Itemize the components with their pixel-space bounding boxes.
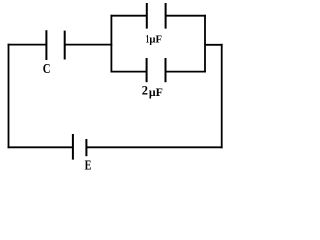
wire box bottom branch left	[111, 71, 147, 73]
wire box right side	[204, 15, 206, 73]
capacitor C1 1uF	[147, 3, 166, 29]
wire bottom left	[8, 146, 73, 148]
wire box top branch right	[166, 15, 206, 17]
svg-text:2: 2	[142, 83, 148, 97]
wire C to parallel box	[65, 44, 113, 46]
wire left vertical	[8, 44, 10, 149]
svg-text:E: E	[85, 159, 92, 174]
wire box bottom branch right	[166, 71, 206, 73]
battery E	[73, 134, 87, 160]
wire right vertical	[221, 44, 223, 148]
svg-text:μF: μF	[149, 87, 163, 99]
capacitor C2 2uF	[147, 58, 166, 82]
wire top-left horizontal	[8, 44, 47, 46]
wire bottom right	[86, 146, 222, 148]
capacitor C	[46, 30, 64, 60]
wire box left side	[110, 15, 112, 73]
svg-text:C: C	[43, 62, 51, 77]
wire box top branch left	[111, 15, 147, 17]
wire box to right rail	[205, 44, 223, 46]
svg-text:μF: μF	[149, 33, 162, 45]
